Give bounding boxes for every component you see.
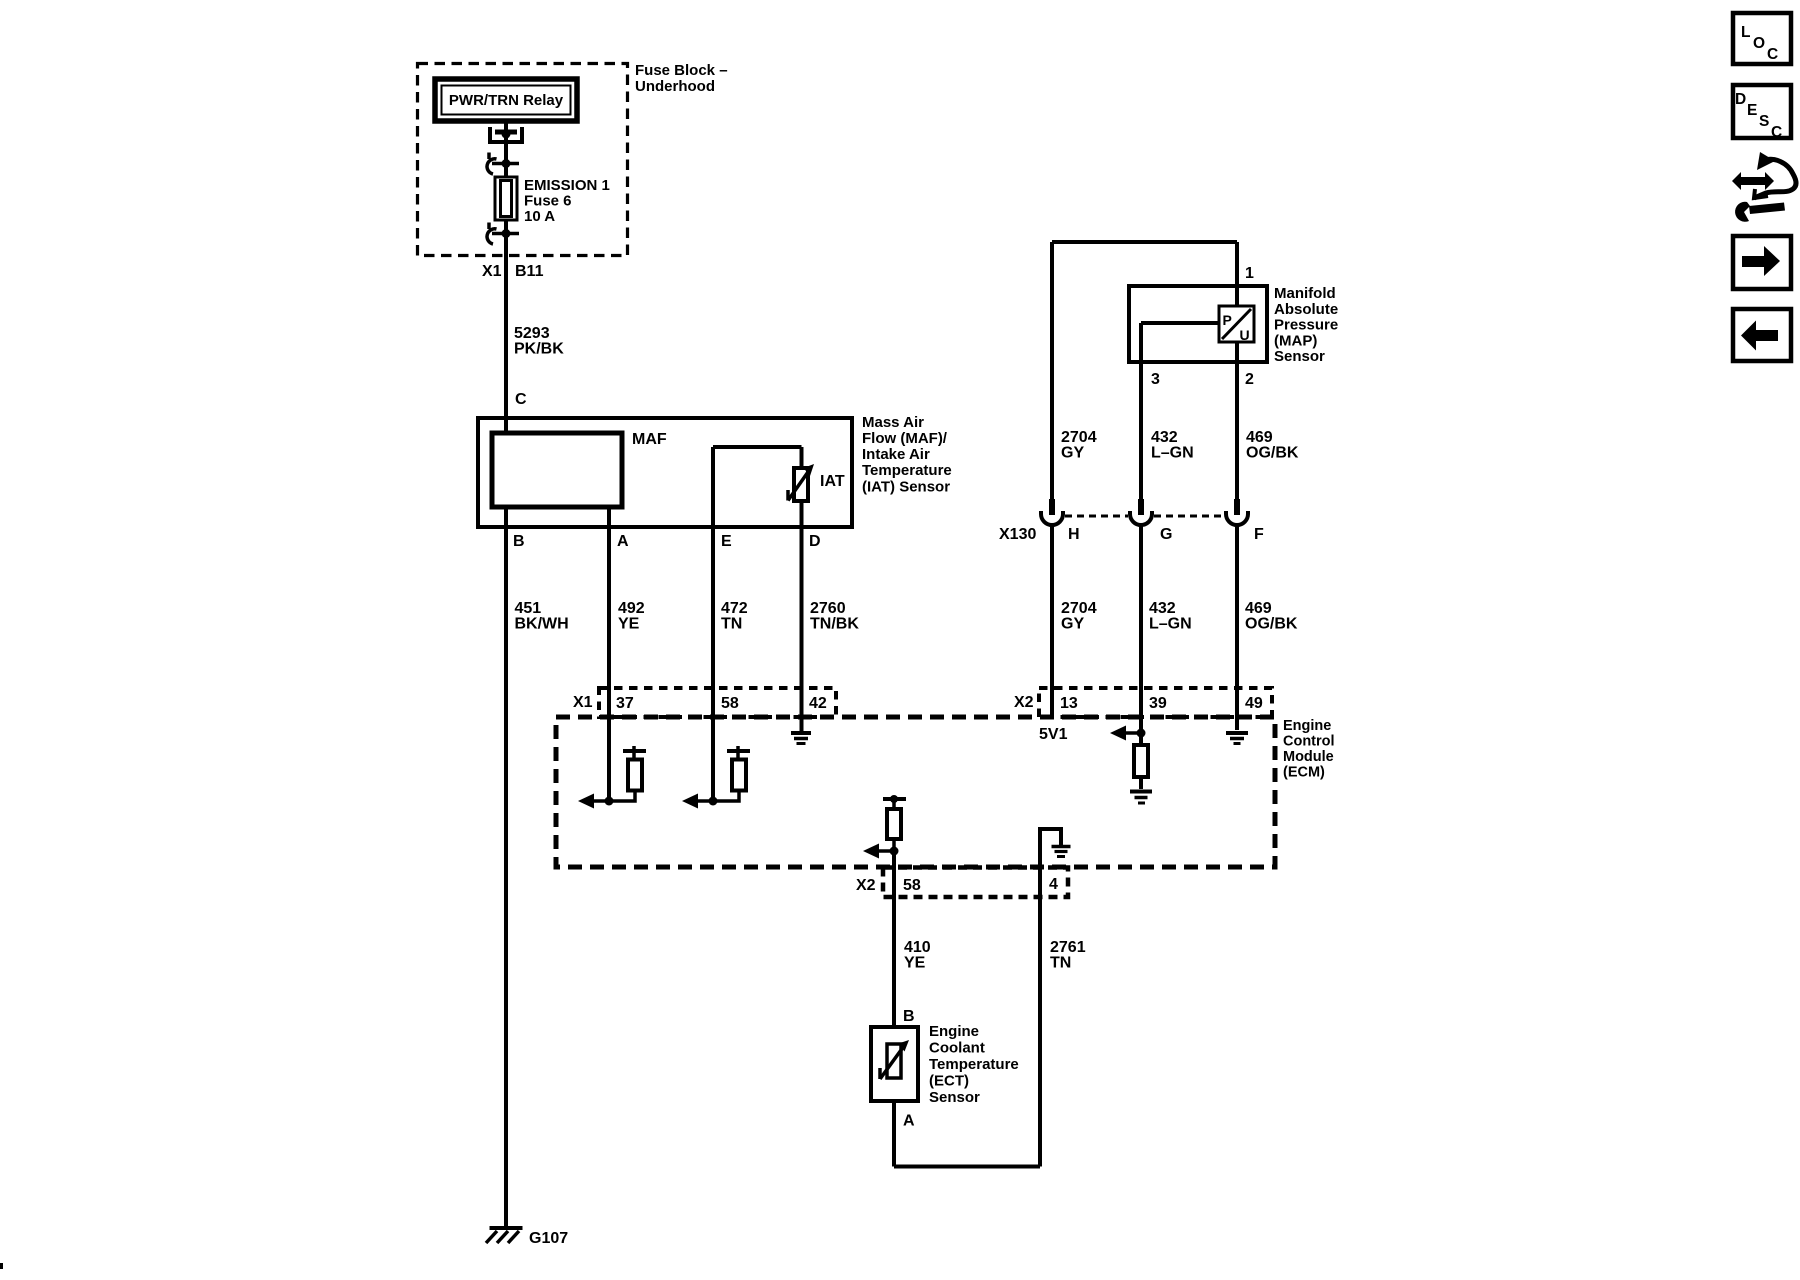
svg-text:X2: X2 (1014, 694, 1034, 711)
svg-text:Absolute: Absolute (1274, 301, 1338, 318)
svg-text:GY: GY (1061, 445, 1084, 462)
svg-text:YE: YE (618, 616, 640, 633)
svg-text:Temperature: Temperature (862, 462, 952, 479)
svg-text:2761: 2761 (1050, 939, 1086, 956)
svg-text:Mass Air: Mass Air (862, 414, 924, 431)
svg-text:E: E (721, 533, 732, 550)
svg-text:(IAT) Sensor: (IAT) Sensor (862, 478, 950, 495)
svg-text:L–GN: L–GN (1151, 445, 1194, 462)
svg-text:492: 492 (618, 600, 645, 617)
svg-text:58: 58 (903, 877, 921, 894)
svg-text:MAF: MAF (632, 431, 667, 448)
svg-text:EMISSION 1: EMISSION 1 (524, 177, 610, 194)
svg-text:2704: 2704 (1061, 600, 1097, 617)
svg-text:PWR/TRN Relay: PWR/TRN Relay (449, 92, 564, 109)
svg-text:B11: B11 (515, 263, 544, 280)
svg-text:42: 42 (809, 695, 827, 712)
svg-text:472: 472 (721, 600, 748, 617)
svg-text:X130: X130 (999, 526, 1036, 543)
svg-text:Control: Control (1283, 734, 1335, 750)
svg-text:1: 1 (1245, 265, 1254, 282)
svg-text:G107: G107 (529, 1230, 568, 1247)
svg-text:37: 37 (616, 695, 634, 712)
svg-text:Engine: Engine (1283, 718, 1331, 734)
svg-text:D: D (1735, 91, 1746, 108)
svg-text:(MAP): (MAP) (1274, 332, 1317, 349)
svg-text:Pressure: Pressure (1274, 317, 1338, 334)
svg-text:PK/BK: PK/BK (514, 341, 564, 358)
svg-text:Underhood: Underhood (635, 78, 715, 95)
svg-text:Intake Air: Intake Air (862, 446, 930, 463)
svg-text:GY: GY (1061, 616, 1084, 633)
svg-text:4: 4 (1049, 876, 1058, 893)
svg-text:TN: TN (1050, 955, 1071, 972)
svg-text:39: 39 (1149, 695, 1167, 712)
svg-text:L: L (1741, 24, 1750, 41)
svg-text:TN/BK: TN/BK (810, 616, 859, 633)
svg-text:451: 451 (515, 600, 542, 617)
svg-text:A: A (903, 1113, 915, 1130)
svg-text:3: 3 (1151, 371, 1160, 388)
svg-text:S: S (1759, 113, 1769, 130)
svg-text:OG/BK: OG/BK (1246, 445, 1299, 462)
svg-text:TN: TN (721, 616, 742, 633)
svg-text:10 A: 10 A (524, 208, 555, 225)
svg-text:U: U (1240, 327, 1250, 343)
svg-text:Sensor: Sensor (929, 1089, 980, 1106)
svg-text:2760: 2760 (810, 600, 846, 617)
svg-text:(ECT): (ECT) (929, 1073, 969, 1090)
svg-text:C: C (515, 391, 527, 408)
svg-text:IAT: IAT (820, 473, 845, 490)
svg-text:F: F (1254, 526, 1264, 543)
svg-text:X1: X1 (482, 263, 502, 280)
svg-text:A: A (617, 533, 629, 550)
svg-text:L–GN: L–GN (1149, 616, 1192, 633)
svg-text:Fuse Block –: Fuse Block – (635, 62, 728, 79)
svg-text:OG/BK: OG/BK (1245, 616, 1298, 633)
svg-text:49: 49 (1245, 695, 1263, 712)
svg-text:5V1: 5V1 (1039, 726, 1068, 743)
svg-text:58: 58 (721, 695, 739, 712)
svg-text:13: 13 (1060, 695, 1078, 712)
svg-text:432: 432 (1149, 600, 1176, 617)
svg-text:Manifold: Manifold (1274, 285, 1336, 302)
svg-text:YE: YE (904, 955, 926, 972)
svg-text:C: C (1767, 46, 1778, 63)
svg-text:H: H (1068, 526, 1080, 543)
svg-text:432: 432 (1151, 429, 1178, 446)
svg-text:Flow (MAF)/: Flow (MAF)/ (862, 430, 948, 447)
svg-text:Temperature: Temperature (929, 1056, 1019, 1073)
svg-text:469: 469 (1245, 600, 1272, 617)
svg-text:G: G (1160, 526, 1172, 543)
svg-text:410: 410 (904, 939, 931, 956)
svg-text:D: D (809, 533, 821, 550)
svg-text:BK/WH: BK/WH (515, 616, 569, 633)
svg-text:X1: X1 (573, 694, 593, 711)
svg-text:O: O (1753, 35, 1765, 52)
svg-text:2704: 2704 (1061, 429, 1097, 446)
svg-text:Module: Module (1283, 749, 1334, 765)
svg-text:P: P (1223, 312, 1232, 328)
svg-text:C: C (1771, 124, 1782, 141)
svg-text:5293: 5293 (514, 325, 550, 342)
svg-text:X2: X2 (856, 877, 876, 894)
svg-text:2: 2 (1245, 371, 1254, 388)
svg-text:B: B (903, 1008, 915, 1025)
svg-text:Engine: Engine (929, 1023, 979, 1040)
svg-text:Fuse 6: Fuse 6 (524, 193, 572, 210)
svg-text:E: E (1747, 102, 1757, 119)
svg-text:Sensor: Sensor (1274, 348, 1325, 365)
svg-text:B: B (513, 533, 525, 550)
svg-text:Coolant: Coolant (929, 1040, 985, 1057)
svg-text:469: 469 (1246, 429, 1273, 446)
svg-text:(ECM): (ECM) (1283, 765, 1325, 781)
